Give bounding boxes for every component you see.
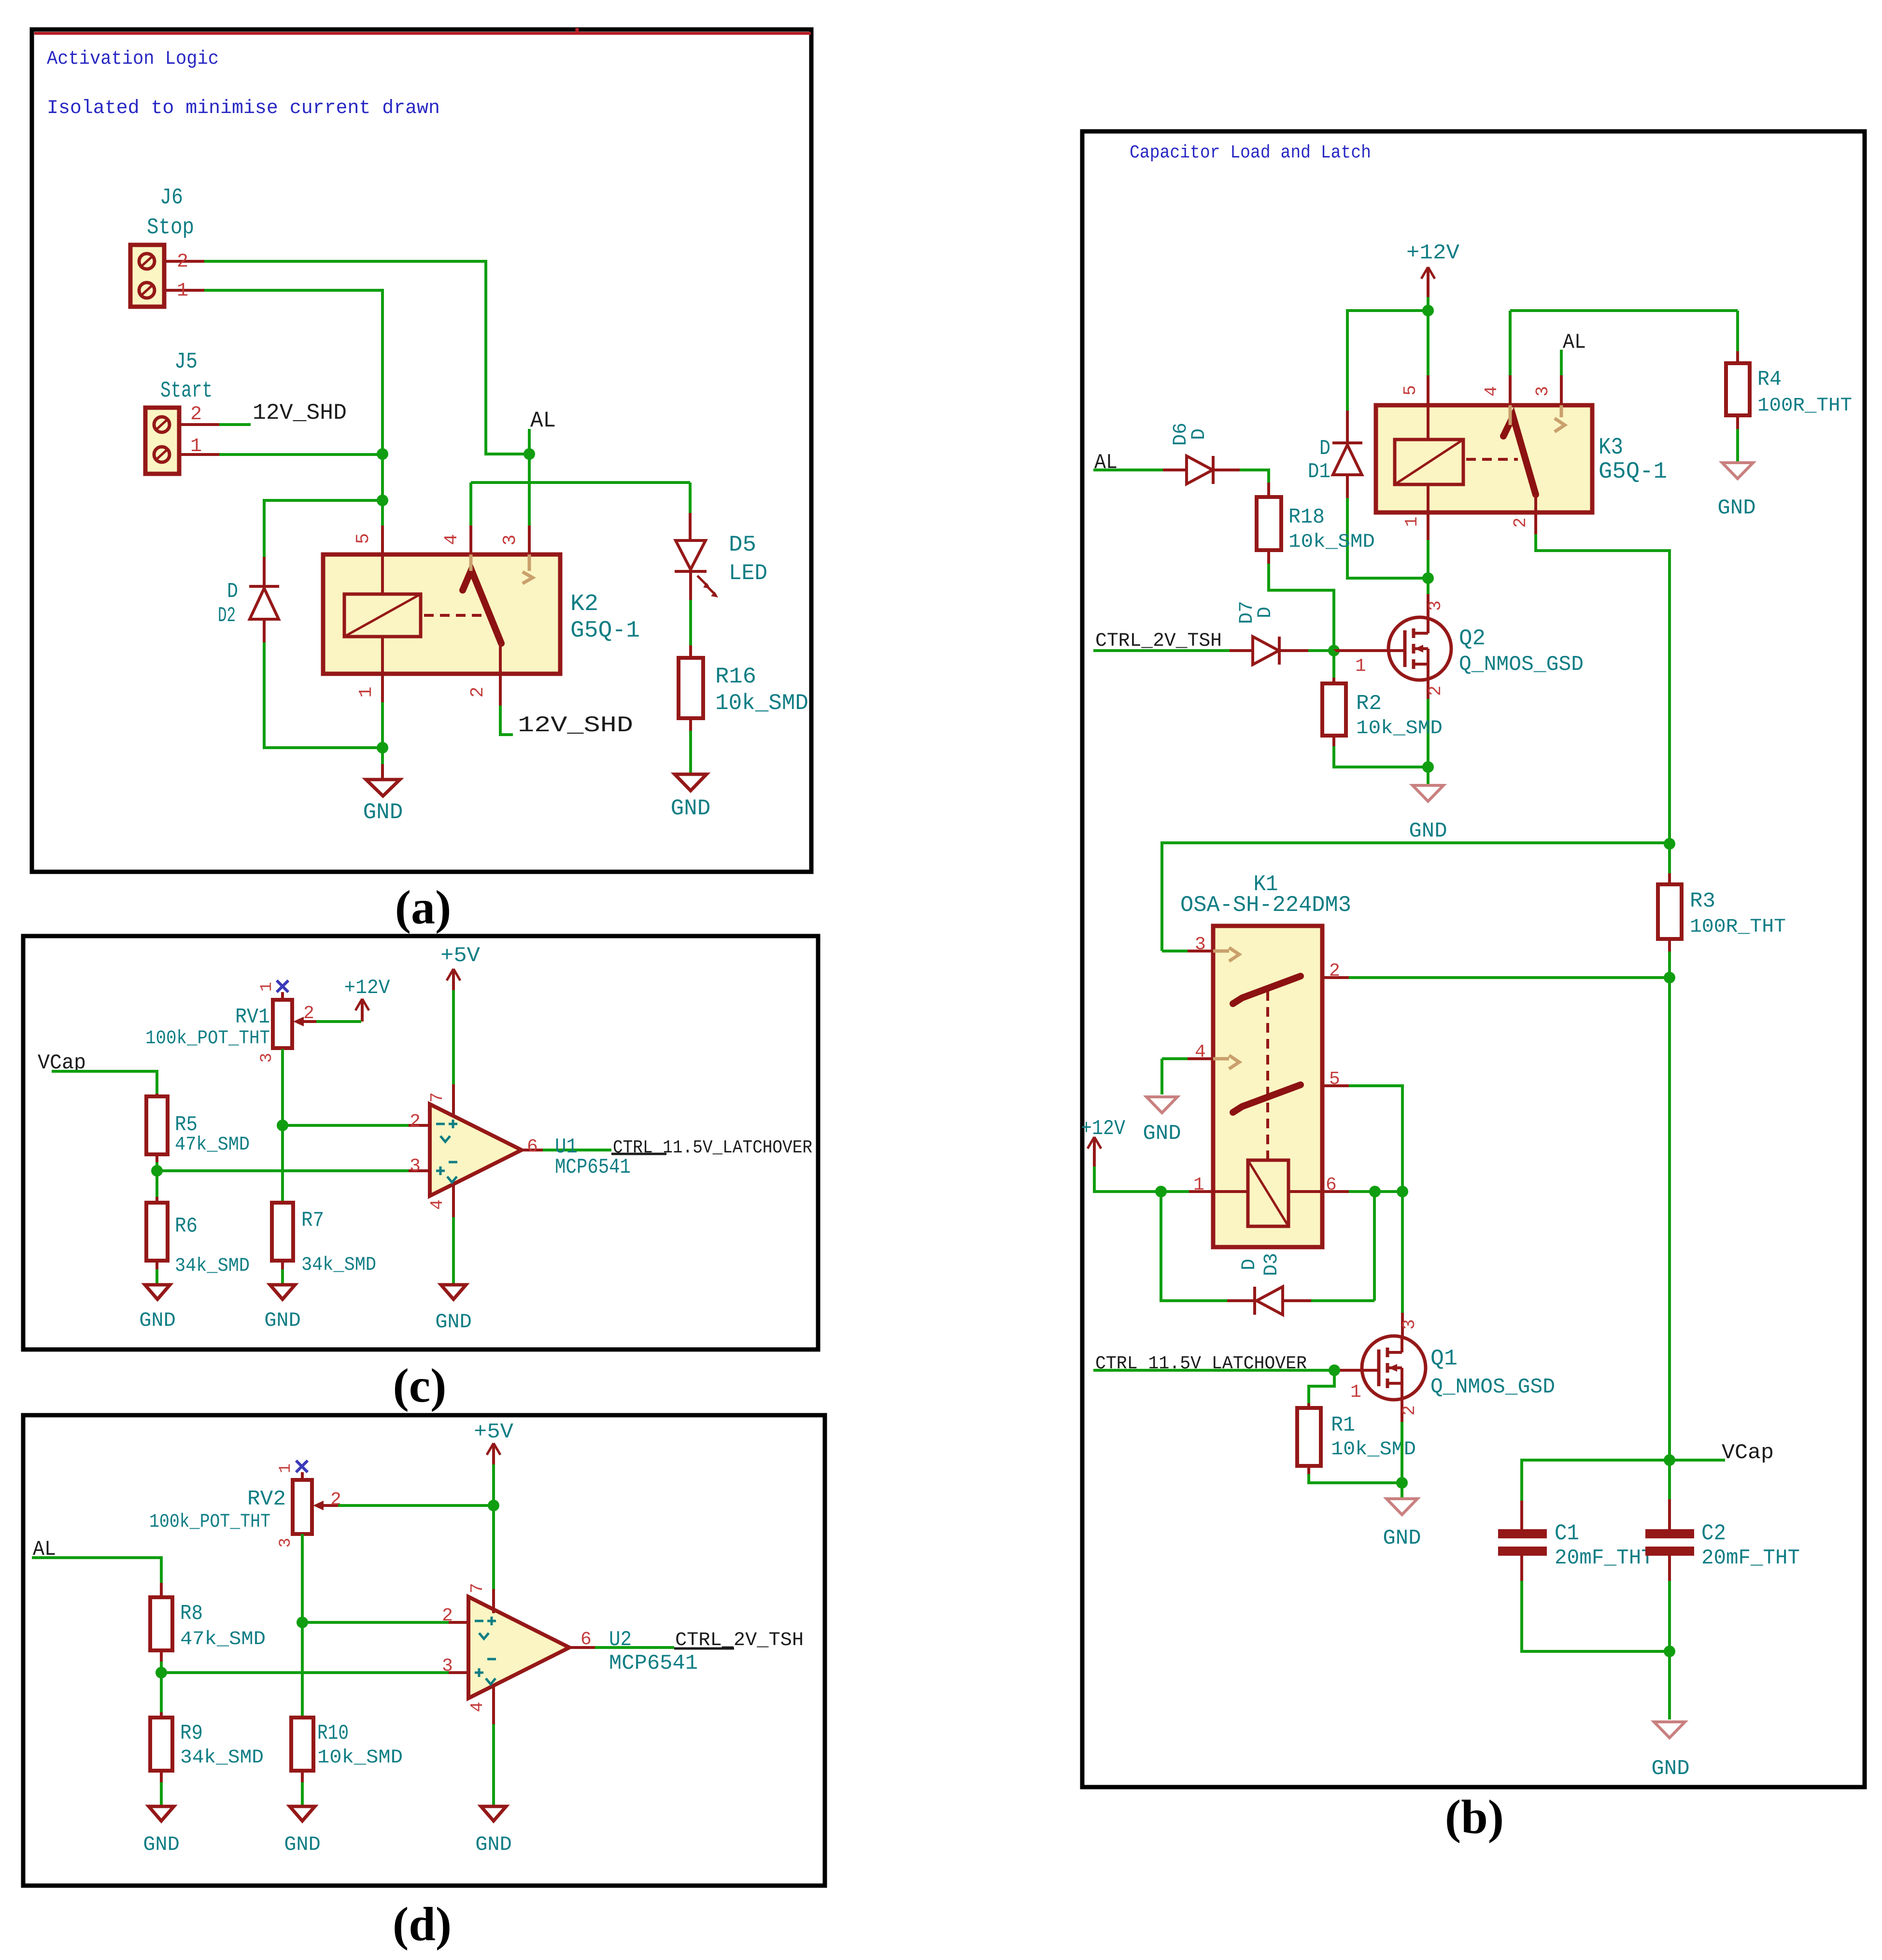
svg-text:R4: R4 bbox=[1757, 368, 1782, 392]
svg-text:(b): (b) bbox=[1445, 1790, 1504, 1844]
power symbol +12V panel c bbox=[355, 999, 362, 1010]
svg-text:5: 5 bbox=[1329, 1069, 1340, 1090]
K2 dashed link bbox=[424, 614, 486, 617]
wire R7 to GND bbox=[281, 1261, 284, 1269]
ground symbol under R6 bbox=[145, 1285, 170, 1299]
K3 pin3 contact bbox=[1555, 418, 1565, 432]
junction wiper node panel d bbox=[488, 1500, 499, 1511]
LED D5 light arrows bbox=[697, 576, 708, 586]
U2 pin 6 output bbox=[569, 1646, 595, 1649]
junction Q1 source node bbox=[1396, 1477, 1408, 1489]
svg-text:7: 7 bbox=[467, 1583, 487, 1593]
RV2 pin1 stub bbox=[301, 1472, 304, 1480]
svg-text:CTRL_2V_TSH: CTRL_2V_TSH bbox=[1095, 630, 1222, 652]
diode D1 bbox=[1346, 411, 1349, 443]
svg-text:10k_SMD: 10k_SMD bbox=[1356, 718, 1443, 739]
K1 pin 4 bbox=[1162, 1057, 1188, 1060]
resistor R7 bbox=[272, 1203, 293, 1261]
red tick mark top bbox=[576, 28, 579, 35]
J6 pin 2 bbox=[164, 260, 204, 263]
wire to GND under Q2 bbox=[1427, 767, 1429, 784]
wire U2 pin4 to GND bbox=[492, 1724, 495, 1806]
connector J5 bbox=[145, 408, 179, 474]
wire R5 to junction bbox=[156, 1154, 158, 1162]
panel (d) border frame bbox=[23, 1415, 825, 1886]
svg-text:R16: R16 bbox=[715, 664, 756, 689]
K1 pin 5 bbox=[1322, 1084, 1349, 1087]
svg-text:LED: LED bbox=[729, 561, 767, 586]
diode D3 loop left bbox=[1161, 1192, 1227, 1301]
svg-text:2: 2 bbox=[1400, 1405, 1419, 1416]
wire U2 output bbox=[595, 1646, 674, 1649]
svg-text:+12V: +12V bbox=[344, 976, 390, 999]
junction Q2 drain node bbox=[1422, 572, 1434, 584]
svg-text:2: 2 bbox=[190, 404, 202, 426]
K1 pin 6 bbox=[1288, 1190, 1322, 1193]
wire to U1 pin2 bbox=[283, 1124, 409, 1127]
svg-text:GND: GND bbox=[139, 1309, 176, 1332]
junction R5-R6 node bbox=[151, 1165, 163, 1177]
wire VCap stub bbox=[1670, 1459, 1725, 1462]
svg-text:GND: GND bbox=[671, 796, 711, 821]
svg-text:100R_THT: 100R_THT bbox=[1757, 395, 1852, 417]
K2 pin 1 bbox=[381, 637, 384, 674]
J6 pin 1 bbox=[164, 289, 204, 292]
svg-text:OSA-SH-224DM3: OSA-SH-224DM3 bbox=[1180, 893, 1351, 918]
panel (b) border frame bbox=[1082, 131, 1865, 1787]
K2 pin 2 bbox=[499, 643, 502, 674]
svg-text:GND: GND bbox=[143, 1833, 180, 1856]
K3 switch arm bbox=[1503, 416, 1536, 495]
svg-text:D: D bbox=[1255, 607, 1276, 618]
junction D2 branch node bbox=[377, 495, 388, 506]
resistor R9 bbox=[160, 1712, 163, 1718]
svg-text:7: 7 bbox=[427, 1092, 447, 1103]
wire R10 to GND bbox=[301, 1771, 304, 1782]
wire to LED D5 bbox=[689, 483, 692, 513]
svg-text:(d): (d) bbox=[393, 1897, 452, 1951]
wire R18 to gate node bbox=[1267, 550, 1270, 564]
svg-text:4: 4 bbox=[467, 1702, 487, 1712]
svg-text:6: 6 bbox=[527, 1136, 538, 1157]
svg-text:1: 1 bbox=[1193, 1175, 1204, 1195]
resistor R2 wire from gate node bbox=[1332, 651, 1335, 678]
svg-text:AL: AL bbox=[530, 408, 556, 433]
RV2 wiper arrow pin2 bbox=[313, 1501, 324, 1510]
wire D2 to ground junction bbox=[264, 642, 382, 748]
svg-text:34k_SMD: 34k_SMD bbox=[175, 1255, 250, 1277]
transistor Q1 bbox=[1362, 1336, 1426, 1400]
K3 coil bbox=[1395, 440, 1463, 484]
svg-text:3: 3 bbox=[500, 535, 521, 546]
svg-text:GND: GND bbox=[475, 1833, 512, 1856]
wire R9 to GND bbox=[160, 1771, 163, 1782]
wire pin6 node down to Q1 bbox=[1401, 1192, 1404, 1313]
junction RV2 to U2 pin2 wire bbox=[297, 1617, 308, 1628]
wire RV1 pin3 down to R7 bbox=[281, 1049, 284, 1203]
K2 pin3 contact bbox=[523, 572, 533, 583]
ground symbol under U1 bbox=[441, 1285, 466, 1299]
svg-text:1: 1 bbox=[1355, 656, 1366, 677]
svg-text:C2: C2 bbox=[1701, 1521, 1726, 1546]
wire VCap to R5 bbox=[52, 1071, 157, 1094]
svg-text:D: D bbox=[1189, 428, 1210, 440]
K2 pin 5 bbox=[381, 526, 384, 554]
Q2 pin 3 drain bbox=[1427, 578, 1429, 594]
junction rail R3 bottom bbox=[1664, 972, 1675, 983]
K1 pin3 contact bbox=[1213, 950, 1229, 953]
svg-text:GND: GND bbox=[1651, 1757, 1689, 1781]
svg-text:D: D bbox=[227, 580, 238, 604]
svg-text:R10: R10 bbox=[317, 1721, 349, 1746]
svg-text:MCP6541: MCP6541 bbox=[555, 1155, 631, 1179]
svg-text:3: 3 bbox=[1400, 1319, 1419, 1330]
svg-text:MCP6541: MCP6541 bbox=[609, 1651, 698, 1676]
resistor R5 bbox=[146, 1096, 168, 1154]
panel (a) border frame bbox=[32, 29, 811, 872]
wire J6 pin1 down to J5 junction bbox=[204, 290, 382, 526]
junction rail R3 top bbox=[1664, 838, 1675, 850]
wire to U1 pin3 bbox=[157, 1169, 409, 1172]
K1 pin 1 bbox=[1189, 1190, 1213, 1193]
svg-text:RV2: RV2 bbox=[247, 1487, 286, 1511]
resistor R16 bbox=[679, 658, 703, 718]
svg-text:GND: GND bbox=[1409, 819, 1447, 843]
junction +12V node bbox=[1422, 305, 1434, 316]
svg-text:47k_SMD: 47k_SMD bbox=[180, 1629, 266, 1650]
K1 pin 3 bbox=[1162, 950, 1188, 952]
svg-text:R3: R3 bbox=[1690, 889, 1715, 913]
Q1 pin 3 drain bbox=[1401, 1313, 1404, 1336]
svg-text:5: 5 bbox=[1401, 385, 1420, 396]
svg-text:12V_SHD: 12V_SHD bbox=[253, 400, 347, 426]
K3 pin 5 bbox=[1427, 375, 1429, 405]
K3 pin 4 bbox=[1509, 375, 1512, 405]
resistor R10 bbox=[291, 1718, 313, 1771]
wire C2 to bottom junction bbox=[1668, 1581, 1671, 1651]
svg-text:AL: AL bbox=[1563, 330, 1586, 355]
svg-text:Q2: Q2 bbox=[1459, 626, 1486, 651]
wire J5 pin2 stub bbox=[219, 423, 251, 426]
resistor R1 wire from gate node bbox=[1309, 1370, 1334, 1403]
svg-text:100R_THT: 100R_THT bbox=[1690, 916, 1786, 938]
J5 pin 1 bbox=[179, 453, 219, 456]
svg-text:3: 3 bbox=[442, 1656, 453, 1676]
wire D1 to Q2 drain node bbox=[1347, 498, 1428, 578]
wire to GND symbol bbox=[381, 748, 384, 764]
svg-text:6: 6 bbox=[580, 1629, 592, 1650]
wire +12V to K3 pin5 bbox=[1427, 311, 1429, 375]
svg-text:+5V: +5V bbox=[440, 944, 481, 968]
U1 input glyphs bbox=[436, 1123, 445, 1125]
svg-text:R18: R18 bbox=[1288, 505, 1325, 529]
resistor R2 bbox=[1322, 683, 1346, 736]
wire D6 to R18 bbox=[1240, 470, 1269, 483]
ground symbol bottom bbox=[1654, 1722, 1685, 1738]
svg-text:2: 2 bbox=[1329, 961, 1340, 981]
svg-text:1: 1 bbox=[190, 436, 202, 457]
power symbol +12V top bbox=[1421, 267, 1428, 279]
svg-text:R9: R9 bbox=[180, 1721, 203, 1746]
panel (c) border frame bbox=[23, 936, 818, 1349]
wire D5 to R16 bbox=[689, 571, 692, 600]
capacitor C1 bbox=[1520, 1501, 1523, 1529]
svg-text:+12V: +12V bbox=[1081, 1117, 1126, 1141]
junction ground node bbox=[377, 742, 388, 753]
svg-text:3: 3 bbox=[258, 1053, 276, 1063]
svg-text:D3: D3 bbox=[1261, 1253, 1283, 1276]
wire +5V down to U2 pin7 bbox=[492, 1464, 495, 1589]
connector J6 bbox=[130, 245, 164, 307]
J5 pin 2 bbox=[179, 423, 219, 426]
wire K3 pin1 to Q2 drain bbox=[1427, 540, 1429, 578]
relay K1 body bbox=[1213, 926, 1322, 1247]
svg-text:1: 1 bbox=[177, 280, 188, 302]
svg-text:100k_POT_THT: 100k_POT_THT bbox=[145, 1028, 270, 1050]
junction capacitors bottom node bbox=[1664, 1646, 1675, 1657]
svg-text:Start: Start bbox=[160, 378, 212, 403]
RV1 wiper arrow pin2 bbox=[293, 1017, 304, 1026]
svg-text:1: 1 bbox=[277, 1463, 295, 1473]
svg-text:+12V: +12V bbox=[1406, 241, 1460, 265]
ground symbol under Q1 bbox=[1387, 1499, 1417, 1515]
power symbol +5V panel c bbox=[447, 969, 453, 980]
svg-text:Q1: Q1 bbox=[1430, 1346, 1457, 1371]
K1 dashed link bbox=[1266, 991, 1269, 1159]
resistor R6 bbox=[156, 1197, 158, 1203]
ground symbol GND under K2 bbox=[366, 780, 400, 796]
svg-text:2: 2 bbox=[1426, 685, 1445, 696]
svg-text:D: D bbox=[1239, 1259, 1260, 1270]
resistor R8 bbox=[150, 1597, 172, 1650]
svg-text:10k_SMD: 10k_SMD bbox=[317, 1747, 403, 1769]
wire R16 to GND bbox=[689, 718, 692, 731]
Q1 pin 2 source bbox=[1401, 1400, 1403, 1422]
diode D3 bbox=[1227, 1299, 1255, 1302]
svg-text:GND: GND bbox=[1143, 1122, 1181, 1146]
wire K3 pin2 to main rail bbox=[1536, 534, 1670, 844]
wire Q2 source to ground junction bbox=[1427, 699, 1429, 767]
wire AL to R8 bbox=[32, 1558, 161, 1583]
RV1 pin1 stub bbox=[281, 992, 284, 1000]
U2 input glyphs bbox=[475, 1620, 483, 1622]
svg-text:R5: R5 bbox=[175, 1113, 198, 1137]
wire R1 to source junction bbox=[1307, 1466, 1310, 1474]
svg-text:R6: R6 bbox=[175, 1214, 198, 1238]
K3 pin 1 bbox=[1427, 484, 1429, 512]
potentiometer RV2 bbox=[293, 1480, 312, 1534]
wire R2 to ground junction bbox=[1332, 736, 1335, 746]
U2 pin 4 bbox=[492, 1685, 495, 1724]
svg-text:J6: J6 bbox=[160, 185, 183, 210]
junction R8-R9 node bbox=[156, 1667, 167, 1678]
svg-text:GND: GND bbox=[284, 1833, 321, 1856]
wire K2 pin2 to 12V_SHD label bbox=[500, 706, 513, 735]
node AL junction bbox=[524, 448, 535, 460]
wire bottom junction to GND bbox=[1668, 1651, 1671, 1719]
wire +12V to D1 bbox=[1347, 311, 1428, 411]
svg-text:1: 1 bbox=[356, 687, 377, 698]
svg-text:D5: D5 bbox=[729, 532, 756, 557]
K3 pin 3 bbox=[1560, 375, 1563, 405]
junction J5-pin1 node bbox=[377, 448, 388, 460]
svg-text:20mF_THT: 20mF_THT bbox=[1555, 1546, 1654, 1570]
op-amp U1 bbox=[430, 1104, 522, 1196]
svg-text:3: 3 bbox=[410, 1156, 421, 1177]
svg-text:10k_SMD: 10k_SMD bbox=[1288, 531, 1375, 553]
wire AL down to K2 pin3 bbox=[528, 454, 531, 526]
ground symbol at K1 pin4 bbox=[1146, 1097, 1177, 1113]
wire D7 to gate junction bbox=[1308, 649, 1334, 652]
svg-text:(c): (c) bbox=[393, 1359, 447, 1412]
wire K3 pin4 from +12V rail bbox=[1509, 311, 1512, 375]
diode D3 loop right bbox=[1311, 1299, 1374, 1302]
U1 pin 6 output bbox=[522, 1149, 543, 1151]
K2 switch arm bbox=[463, 570, 501, 643]
wire RV1 wiper to +12V bbox=[316, 1020, 361, 1023]
svg-text:(a): (a) bbox=[395, 881, 452, 934]
svg-text:2: 2 bbox=[467, 687, 488, 698]
svg-text:Capacitor Load and Latch: Capacitor Load and Latch bbox=[1130, 142, 1371, 163]
svg-text:U2: U2 bbox=[609, 1628, 632, 1652]
wire RV2 pin3 down to R10 bbox=[301, 1534, 304, 1718]
svg-text:VCap: VCap bbox=[1722, 1441, 1774, 1465]
wire VCap to C1 bbox=[1522, 1460, 1670, 1501]
K1 switch arm upper bbox=[1233, 976, 1301, 1004]
wire +5V to U1 pin7 bbox=[452, 990, 455, 1084]
resistor R4 bbox=[1726, 363, 1750, 415]
wire R8 to junction bbox=[160, 1650, 163, 1662]
svg-text:D: D bbox=[1319, 437, 1330, 461]
svg-text:4: 4 bbox=[1195, 1042, 1206, 1063]
potentiometer RV1 bbox=[273, 1000, 292, 1048]
svg-text:5: 5 bbox=[353, 533, 374, 544]
ground symbol GND under R16 bbox=[675, 774, 707, 791]
wire K1 pin5 to pin6 node bbox=[1349, 1086, 1402, 1192]
ground symbol under R4 bbox=[1722, 463, 1753, 479]
junction VCap node bbox=[1664, 1454, 1675, 1466]
K2 pin 3 bbox=[528, 526, 531, 554]
resistor R18 bbox=[1257, 497, 1281, 550]
wire Q1 source down bbox=[1401, 1422, 1403, 1483]
wire to U2 pin2 bbox=[302, 1621, 449, 1624]
svg-text:2: 2 bbox=[442, 1605, 453, 1626]
wire relay top horizontal bbox=[471, 481, 690, 484]
svg-text:2: 2 bbox=[303, 1003, 314, 1024]
resistor R4 wire from rail bbox=[1736, 311, 1739, 351]
svg-text:100k_POT_THT: 100k_POT_THT bbox=[149, 1511, 270, 1533]
svg-text:K2: K2 bbox=[570, 591, 598, 617]
RV1 DNC cross bbox=[277, 980, 288, 992]
svg-text:D2: D2 bbox=[218, 604, 236, 628]
K1 pin 2 bbox=[1322, 976, 1349, 979]
svg-text:K3: K3 bbox=[1599, 435, 1623, 461]
junction Q2 gate node bbox=[1328, 645, 1340, 656]
junction K1 pin1 node bbox=[1155, 1186, 1167, 1197]
svg-text:2: 2 bbox=[330, 1490, 341, 1510]
wire K1 pin4 to GND bbox=[1160, 1059, 1163, 1094]
svg-text:20mF_THT: 20mF_THT bbox=[1701, 1546, 1800, 1570]
power symbol +5V panel d bbox=[487, 1443, 494, 1455]
svg-text:R1: R1 bbox=[1331, 1413, 1355, 1437]
svg-text:RV1: RV1 bbox=[235, 1005, 270, 1029]
svg-text:G5Q-1: G5Q-1 bbox=[570, 618, 640, 644]
LED D5 bbox=[676, 540, 706, 569]
wire R6 to GND bbox=[156, 1261, 158, 1269]
svg-text:3: 3 bbox=[1533, 386, 1553, 397]
svg-text:Q_NMOS_GSD: Q_NMOS_GSD bbox=[1430, 1375, 1555, 1399]
transistor Q2 bbox=[1388, 617, 1451, 680]
svg-text:3: 3 bbox=[277, 1538, 295, 1548]
op-amp U2 bbox=[468, 1597, 569, 1698]
svg-text:3: 3 bbox=[1426, 600, 1445, 611]
U1 pin 7 bbox=[452, 1084, 455, 1116]
junction RV1 to pin2 wire bbox=[277, 1120, 288, 1131]
wire AL label stub bbox=[528, 429, 531, 454]
svg-text:GND: GND bbox=[264, 1309, 301, 1332]
diode D6 bbox=[1163, 469, 1187, 471]
svg-text:4: 4 bbox=[441, 534, 462, 545]
svg-text:GND: GND bbox=[1383, 1526, 1421, 1550]
Q2 pin 2 source bbox=[1427, 680, 1429, 699]
junction Q2 source node bbox=[1422, 761, 1434, 773]
wire CTRL_2V_TSH to D7 bbox=[1093, 649, 1230, 652]
wire J6 pin2 to node AL bbox=[204, 261, 529, 454]
svg-text:R7: R7 bbox=[301, 1208, 324, 1233]
wire to K2 pin4 bbox=[469, 483, 472, 526]
relay K2 body bbox=[323, 554, 560, 674]
svg-text:2: 2 bbox=[177, 251, 188, 273]
ground symbol under R10 bbox=[290, 1806, 315, 1821]
K3 pin 2 bbox=[1534, 495, 1537, 512]
ground symbol under Q2 bbox=[1413, 785, 1443, 801]
wire R4 to GND bbox=[1736, 415, 1739, 429]
svg-text:Isolated to minimise current d: Isolated to minimise current drawn bbox=[47, 98, 440, 119]
svg-text:G5Q-1: G5Q-1 bbox=[1599, 459, 1667, 485]
svg-text:GND: GND bbox=[363, 800, 403, 825]
K1 coil bbox=[1248, 1160, 1288, 1226]
diode D2 bbox=[263, 557, 266, 586]
wire AL to D6 bbox=[1093, 469, 1163, 471]
svg-text:3: 3 bbox=[1195, 934, 1206, 955]
svg-text:GND: GND bbox=[1717, 496, 1755, 520]
wire AL stub to K3 pin3 bbox=[1560, 350, 1563, 375]
wire +12V to K1 pin1 bbox=[1094, 1166, 1189, 1192]
svg-text:4: 4 bbox=[427, 1199, 447, 1210]
svg-text:6: 6 bbox=[1326, 1175, 1337, 1195]
U1 pin 4 bbox=[452, 1184, 455, 1217]
svg-text:2: 2 bbox=[410, 1111, 421, 1132]
svg-text:CTRL_11.5V_LATCHOVER: CTRL_11.5V_LATCHOVER bbox=[613, 1137, 812, 1158]
diode D7 bbox=[1230, 649, 1253, 652]
svg-text:1: 1 bbox=[1402, 516, 1422, 527]
relay K3 body bbox=[1376, 405, 1592, 512]
svg-text:34k_SMD: 34k_SMD bbox=[180, 1747, 264, 1769]
resistor R3 bbox=[1668, 844, 1671, 873]
svg-text:10k_SMD: 10k_SMD bbox=[715, 691, 808, 716]
svg-text:+5V: +5V bbox=[474, 1420, 514, 1444]
wire J5 pin1 to junction bbox=[219, 453, 382, 456]
wire K1 pin3 to main rail bbox=[1162, 843, 1670, 951]
K1 switch arm lower bbox=[1233, 1085, 1301, 1112]
svg-text:Stop: Stop bbox=[147, 215, 194, 240]
svg-text:Activation Logic: Activation Logic bbox=[47, 48, 219, 70]
power symbol +12V lower bbox=[1088, 1137, 1094, 1149]
capacitor C2 bbox=[1668, 1460, 1671, 1499]
svg-text:4: 4 bbox=[1482, 386, 1501, 397]
svg-text:1: 1 bbox=[258, 982, 276, 992]
ground symbol under R7 bbox=[270, 1285, 295, 1299]
